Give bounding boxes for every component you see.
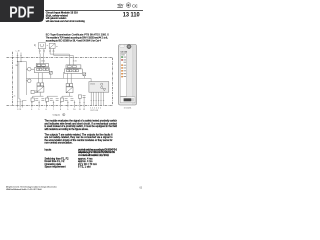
svg-text:357913: 357913: [90, 110, 98, 112]
svg-text:11: 11: [79, 109, 81, 111]
svg-text:13 110/01: 13 110/01: [124, 107, 132, 109]
supply circle C1: [26, 67, 34, 71]
svg-text:2x: 2x: [14, 96, 16, 98]
svg-text:8: 8: [60, 109, 61, 111]
dash between sensors: [47, 45, 48, 47]
svg-text:non-central annunciation.: non-central annunciation.: [45, 142, 73, 145]
wires sensors to terminals: [40, 52, 73, 65]
dash-dot boundary right: [112, 58, 114, 106]
cert circle logo: [126, 3, 131, 8]
LED run: [121, 56, 123, 58]
dash-dot boundary top: [7, 57, 113, 59]
terminal marker bars: [17, 101, 104, 103]
input block B1: [34, 68, 49, 73]
svg-text:Outputs: Outputs: [53, 113, 60, 116]
spec table: [45, 149, 118, 169]
bottom terminal numbers: [17, 107, 102, 111]
logic wires down: [91, 92, 103, 105]
barcode label: [120, 97, 135, 103]
left feed wires down: [18, 62, 27, 101]
body paragraph 1: [45, 120, 118, 131]
svg-text:C€: C€: [132, 4, 138, 9]
svg-text:7: 7: [53, 109, 54, 111]
terminal box T1: [36, 64, 48, 67]
svg-text:9: 9: [67, 109, 68, 111]
svg-text:according to IEC 61508 for SIL: according to IEC 61508 for SIL 4 and EN …: [46, 40, 102, 43]
logic block U1: [89, 82, 109, 93]
svg-text:15 16: 15 16: [73, 60, 77, 62]
intro paragraph: [46, 33, 109, 42]
svg-text:Inputs: Inputs: [45, 149, 53, 152]
svg-text:6: 6: [46, 109, 47, 111]
svg-text:4: 4: [31, 109, 32, 111]
svg-text:8 TE, 1 slot: 8 TE, 1 slot: [78, 166, 91, 169]
output contact group K4: [78, 95, 85, 98]
svg-text:5: 5: [38, 109, 39, 111]
supply circle C2: [26, 79, 31, 83]
svg-text:with galvanic isolation: with galvanic isolation: [46, 17, 67, 20]
PDF badge: [0, 0, 44, 22]
svg-text:TÜV: TÜV: [117, 3, 124, 8]
sensor S1 (contact with resistors): [38, 43, 45, 52]
header rule: [45, 9, 143, 12]
wires blocks to transformers: [38, 67, 73, 84]
dash-dot boundary left: [12, 52, 14, 106]
output contact group K1: [31, 98, 44, 101]
LED labels: [124, 57, 127, 77]
svg-text:with wire break and short circ: with wire break and short circuit monito…: [46, 20, 86, 23]
output contact group K2: [46, 98, 59, 101]
svg-text:PDF: PDF: [9, 4, 34, 21]
input block B2: [64, 69, 82, 74]
svg-text:8: 8: [63, 114, 64, 116]
transformer outputs down: [33, 92, 73, 98]
X box B: [83, 73, 86, 76]
svg-text:13 110: 13 110: [123, 12, 140, 19]
top-left field terminals: [17, 53, 27, 62]
svg-text:(Ex)i, safety-related: (Ex)i, safety-related: [46, 14, 68, 17]
isolation transformer ch1: [37, 83, 44, 92]
svg-text:HIMA Paul Hildebrandt GmbH + C: HIMA Paul Hildebrandt GmbH + Co KG · 687…: [6, 188, 42, 191]
svg-text:1): 1): [34, 45, 36, 47]
svg-text:with resistors according to th: with resistors according to the figure a…: [45, 128, 89, 131]
svg-text:Space requirement: Space requirement: [45, 166, 66, 169]
interconnect bus: [26, 73, 91, 82]
dash-dot boundary bottom: [7, 104, 113, 106]
terminal box T2: [66, 65, 81, 68]
svg-text:12: 12: [83, 109, 85, 111]
svg-text:10: 10: [73, 109, 75, 111]
output contact group K3: [60, 98, 73, 101]
aux component M1: [31, 90, 38, 93]
body paragraph 2: [45, 133, 114, 144]
footer: [6, 185, 58, 191]
X box A: [49, 71, 52, 74]
svg-text:13 14: 13 14: [41, 60, 45, 62]
svg-text:1 2 3: 1 2 3: [17, 109, 21, 111]
title block: [46, 12, 86, 23]
TUV logo: [117, 3, 124, 8]
sensor S2 (proximity switch): [49, 43, 57, 51]
svg-text:13110: 13110: [90, 83, 95, 85]
svg-text:13 110: 13 110: [120, 51, 127, 53]
bottom terminal ticks: [18, 97, 85, 108]
isolation transformer ch2: [66, 84, 73, 93]
